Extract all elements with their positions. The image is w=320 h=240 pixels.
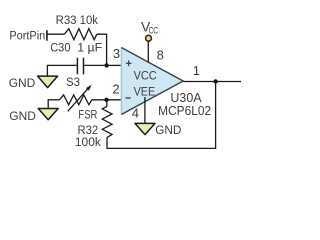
output wire pin 1 <box>183 81 241 83</box>
wire C30 left plate to GND1 <box>47 65 76 76</box>
wire GND2 to FSR <box>48 100 59 109</box>
svg-text:3: 3 <box>113 46 120 61</box>
svg-text:1 µF: 1 µF <box>77 41 102 55</box>
wire PortPin to R33 <box>48 33 65 35</box>
wire C30 right plate to node A <box>84 64 106 66</box>
svg-text:GND: GND <box>155 123 181 137</box>
svg-text:GND: GND <box>9 109 36 123</box>
value label C30 1 uF <box>50 41 102 55</box>
svg-text:MCP6L02: MCP6L02 <box>158 104 211 118</box>
output node junction dot <box>213 79 217 83</box>
svg-text:GND: GND <box>9 76 36 90</box>
minus input symbol <box>126 97 131 99</box>
FSR arrow <box>68 85 92 112</box>
svg-text:C30: C30 <box>50 41 70 55</box>
svg-text:VCC: VCC <box>134 68 157 82</box>
svg-text:8: 8 <box>157 47 164 62</box>
resistor R33 <box>64 29 97 40</box>
resistor R32 <box>102 106 112 137</box>
svg-text:FSR: FSR <box>78 107 97 121</box>
svg-text:CC: CC <box>149 26 159 36</box>
svg-text:1: 1 <box>193 63 200 78</box>
svg-text:PortPin: PortPin <box>9 29 45 43</box>
svg-text:VEE: VEE <box>134 84 156 98</box>
resistor FSR (sensor S3) <box>59 95 91 105</box>
wire FSR to op-amp -input (pin 2) <box>92 99 122 101</box>
wire VEE to pin 4 <box>144 97 146 123</box>
svg-text:100k: 100k <box>75 135 102 149</box>
svg-text:4: 4 <box>132 106 139 121</box>
ground GND2 <box>9 109 58 123</box>
wire R33 to node A <box>97 34 107 65</box>
ground GND3 at pin 4 <box>135 123 181 137</box>
ground GND1 <box>9 76 58 90</box>
capacitor C30 <box>77 58 83 75</box>
svg-text:R33 10k: R33 10k <box>56 13 99 27</box>
node B junction dot <box>104 98 108 102</box>
plus input symbol <box>126 60 132 66</box>
wire node A to op-amp +input (pin 3) <box>107 64 122 66</box>
svg-text:2: 2 <box>112 82 119 97</box>
wire node B to R32 <box>106 100 108 107</box>
wire VCC to pin 8 <box>147 42 149 63</box>
supply VCC terminal <box>141 20 158 41</box>
svg-text:S3: S3 <box>66 75 80 89</box>
svg-text:U30A: U30A <box>170 91 202 105</box>
feedback wire R32 bottom to output node <box>107 82 216 149</box>
op-amp U1 triangle <box>121 48 183 115</box>
connector PortPin <box>9 29 47 43</box>
node A junction dot <box>104 63 108 67</box>
